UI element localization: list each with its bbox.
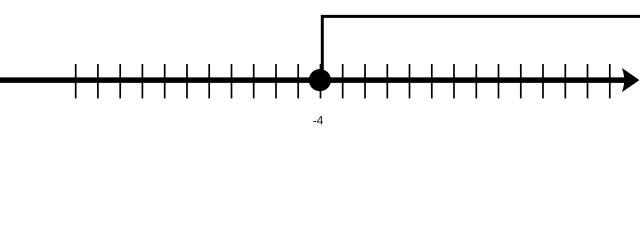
ray boundary: vertical line up from point then horizontal to right edge <box>322 16 640 80</box>
svg-text:-4: -4 <box>313 114 324 128</box>
closed point at -4 <box>309 69 331 91</box>
arrowhead <box>622 68 640 92</box>
number line <box>0 77 633 83</box>
tick marks <box>76 64 610 98</box>
